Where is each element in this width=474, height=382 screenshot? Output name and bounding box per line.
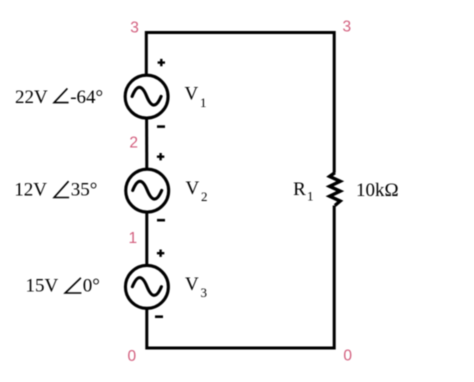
V1 minus: [157, 125, 165, 128]
svg-text:R: R: [293, 179, 306, 200]
svg-text:3: 3: [201, 285, 208, 300]
svg-text:10kΩ: 10kΩ: [356, 180, 399, 201]
V2 plus: [157, 153, 164, 160]
V1 plus: [158, 59, 165, 66]
source V1 sine: [132, 87, 161, 105]
svg-text:0°: 0°: [83, 276, 100, 297]
svg-text:0: 0: [343, 347, 352, 364]
svg-text:15V: 15V: [26, 276, 59, 297]
wire between V1 and V2: [145, 119, 148, 169]
angle symbol of 0: [65, 278, 81, 293]
V2 minus: [157, 219, 165, 222]
source V3 sine: [132, 278, 161, 296]
svg-text:-64°: -64°: [70, 87, 103, 108]
svg-text:2: 2: [129, 134, 138, 151]
source V2 sine: [133, 181, 162, 199]
svg-text:35°: 35°: [71, 180, 98, 201]
svg-text:1: 1: [307, 189, 314, 204]
svg-text:22V: 22V: [15, 87, 48, 108]
svg-text:3: 3: [342, 18, 351, 35]
angle symbol of 35: [54, 181, 69, 197]
V3 plus: [157, 250, 164, 257]
source V2 circle: [126, 169, 169, 212]
svg-text:V: V: [185, 274, 199, 295]
svg-text:1: 1: [128, 230, 137, 247]
svg-text:1: 1: [200, 95, 207, 110]
wire bottom rail node 0: [147, 206, 334, 349]
wire between V2 and V3: [145, 213, 148, 265]
svg-text:2: 2: [201, 189, 208, 204]
svg-text:12V: 12V: [14, 180, 47, 201]
wire top rail from node 3 left corner to right rail down to resistor: [146, 33, 334, 173]
svg-text:V: V: [186, 178, 200, 199]
svg-text:0: 0: [127, 348, 136, 365]
svg-text:V: V: [185, 84, 199, 105]
source V3 circle: [125, 265, 168, 308]
source V1 circle: [125, 75, 168, 118]
angle symbol of -64: [54, 88, 69, 102]
resistor R1 zigzag: [330, 173, 341, 206]
V3 minus: [155, 315, 163, 318]
svg-text:3: 3: [130, 20, 139, 37]
